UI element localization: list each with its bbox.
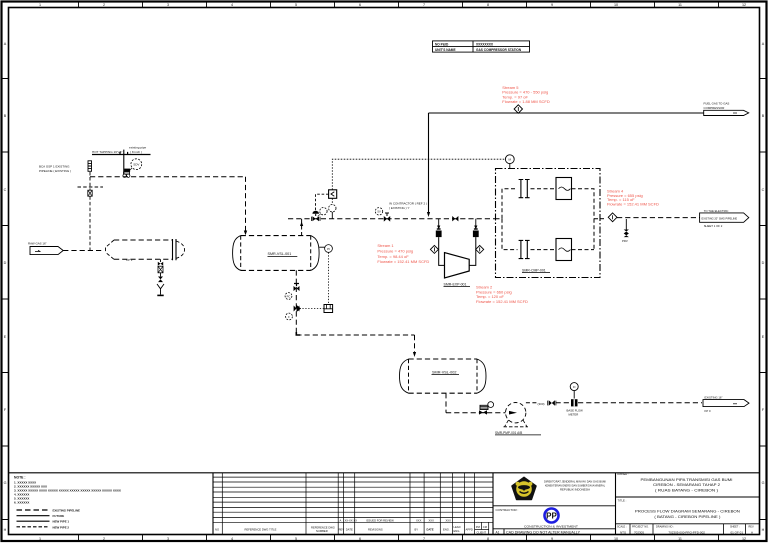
instrument SV bubble station 2 xyxy=(375,208,382,215)
svg-text:TO THE ELECTRIC: TO THE ELECTRIC xyxy=(704,209,729,213)
svg-text:Temp. = 98.44 oF: Temp. = 98.44 oF xyxy=(377,254,409,259)
svg-text:SCALE :: SCALE : xyxy=(617,526,627,529)
instrument PC bubble xyxy=(285,293,292,300)
svg-text:6. XXXXXX: 6. XXXXXX xyxy=(14,501,29,505)
svg-text:existing pipe: existing pipe xyxy=(129,146,146,150)
relief valve PRV stub xyxy=(622,219,629,243)
existing pipeline off-page connector KP 0 xyxy=(703,396,749,413)
svg-text:Flowrate = 152.41 MM SCFD: Flowrate = 152.41 MM SCFD xyxy=(607,202,659,207)
signal wire logic box to bubble xyxy=(331,198,333,219)
instrument bubble near SDV-1 xyxy=(318,208,327,217)
svg-text:PP: PP xyxy=(546,512,557,521)
svg-text:01 OF 01: 01 OF 01 xyxy=(731,531,744,535)
svg-text:PROJECT NO.: PROJECT NO. xyxy=(632,526,649,529)
svg-text:( 8 inch ): ( 8 inch ) xyxy=(130,150,142,154)
svg-text:A: A xyxy=(751,531,753,535)
svg-text:ENG.: ENG. xyxy=(443,528,450,532)
raw gas inlet off-page connector xyxy=(28,242,63,255)
svg-text:( RUAS BATANG - CIREBON ): ( RUAS BATANG - CIREBON ) xyxy=(655,488,718,492)
signal wire PI to controller box xyxy=(328,252,330,304)
vent stack under pig receiver xyxy=(157,259,164,295)
svg-text:IN CONTRACTOR ( REF 2 ): IN CONTRACTOR ( REF 2 ) xyxy=(389,202,427,206)
pump suction control valve xyxy=(479,405,488,414)
svg-text:XXXXXXXX: XXXXXXXX xyxy=(476,42,494,46)
label SMR-EXP-001 xyxy=(444,283,471,287)
svg-text:RAW GAS 16": RAW GAS 16" xyxy=(28,242,47,246)
title block outer dividers xyxy=(9,473,760,535)
svg-text:FUTURE: FUTURE xyxy=(53,514,65,518)
wire fuel gas riser xyxy=(427,113,430,217)
compressor station battery limit box xyxy=(496,169,601,278)
svg-text:SV: SV xyxy=(377,210,381,214)
wire existing branch vertical xyxy=(89,177,91,251)
svg-text:PROCESS FLOW DIAGRAM SEMARANG: PROCESS FLOW DIAGRAM SEMARANG - CIREBON xyxy=(635,509,741,513)
instrument bubble at pump suction xyxy=(488,402,494,408)
svg-text:C: C xyxy=(4,188,7,192)
instrument bubble under logic box xyxy=(329,205,336,212)
label contractor boundary xyxy=(389,202,427,210)
svg-text:REV: REV xyxy=(339,528,345,532)
wire compressor train loop xyxy=(496,189,601,250)
svg-text:SMR-VSL-002: SMR-VSL-002 xyxy=(432,371,456,375)
owner project title xyxy=(617,472,733,492)
wire from expander discharge xyxy=(469,237,476,265)
svg-text:REFERENCE DWG TITLE: REFERENCE DWG TITLE xyxy=(245,528,277,532)
wire fuel gas header xyxy=(429,112,704,114)
notes list xyxy=(14,475,121,504)
valve on expander outlet xyxy=(473,229,479,237)
svg-text:XXX: XXX xyxy=(446,519,452,523)
svg-text:10: 10 xyxy=(614,3,618,7)
svg-text:11: 11 xyxy=(678,3,682,7)
svg-text:OWNER :: OWNER : xyxy=(617,472,629,476)
svg-text:H: H xyxy=(4,528,7,532)
wire pump discharge xyxy=(526,402,537,404)
svg-text:Flowrate = 152.41 MM SCFD: Flowrate = 152.41 MM SCFD xyxy=(476,299,528,304)
svg-text:CLIENT: CLIENT xyxy=(477,531,487,535)
svg-text:REFERENCE DWG: REFERENCE DWG xyxy=(311,526,335,530)
svg-text:REV.: REV. xyxy=(749,526,755,529)
pump SMR-PMP-001 A/B xyxy=(504,403,529,427)
svg-text:EXISTING PIPELINE: EXISTING PIPELINE xyxy=(53,509,81,513)
svg-text:ENG.: ENG. xyxy=(454,529,461,533)
stream 1 data label xyxy=(377,243,429,264)
svg-text:BCA GSP 1 EXISTING: BCA GSP 1 EXISTING xyxy=(39,165,70,169)
svg-text:7: 7 xyxy=(423,537,425,541)
svg-text:SMR-VSL-001: SMR-VSL-001 xyxy=(268,252,292,256)
signal wire valve to controller box xyxy=(300,308,325,310)
hot tap stub wire xyxy=(120,150,128,175)
strainer F2 on existing branch xyxy=(88,190,92,196)
svg-text:APPD: APPD xyxy=(466,528,473,532)
svg-text:6: 6 xyxy=(359,3,361,7)
svg-text:NOTE :: NOTE : xyxy=(14,475,26,479)
svg-text:CONSTRUCTION & INVESTMENT: CONSTRUCTION & INVESTMENT xyxy=(524,524,578,528)
wire vessel top outlet to main header xyxy=(300,219,303,236)
svg-text:8: 8 xyxy=(487,3,489,7)
vessel SMR-VSL-001 xyxy=(233,236,320,271)
compressor SMR-CMP-001 train B cylinder xyxy=(519,240,530,258)
wire expander inlet riser xyxy=(437,219,440,230)
svg-text:G: G xyxy=(4,481,7,485)
svg-text:UNIT'S NAME: UNIT'S NAME xyxy=(435,48,456,52)
svg-text:Flowrate = 1.88 MM SCFD: Flowrate = 1.88 MM SCFD xyxy=(502,99,550,104)
svg-text:H: H xyxy=(762,528,765,532)
ministry name text xyxy=(544,480,606,492)
after-cooler E1 train A xyxy=(556,178,572,200)
after-cooler E2 train B xyxy=(556,239,572,261)
svg-text:EXISTING 16": EXISTING 16" xyxy=(705,396,723,400)
svg-text:1: 1 xyxy=(39,3,41,7)
svg-text:COMPRESSOR: COMPRESSOR xyxy=(704,106,725,110)
electric pipeline off-page connector xyxy=(700,209,749,228)
svg-text:PRV: PRV xyxy=(622,239,628,243)
svg-text:Flowrate = 152.41 MM SCFD: Flowrate = 152.41 MM SCFD xyxy=(377,259,429,264)
svg-text:1: 1 xyxy=(39,537,41,541)
svg-text:SDV: SDV xyxy=(133,163,139,167)
svg-text:EXISTING 20" SMG PIPELINE: EXISTING 20" SMG PIPELINE xyxy=(702,216,738,220)
label existing pipeline xyxy=(39,165,71,174)
pig receiver KP 1 xyxy=(106,239,185,262)
check valve on discharge xyxy=(548,400,556,405)
vessel SMR-VSL-002 xyxy=(400,359,487,393)
strainer F1 on existing branch xyxy=(88,161,92,172)
svg-text:KEMENTERIAN ENERGI DAN SUMBER: KEMENTERIAN ENERGI DAN SUMBER DAYA MINER… xyxy=(545,484,605,488)
svg-text:9: 9 xyxy=(551,3,553,7)
svg-text:METER: METER xyxy=(569,413,579,417)
svg-text:3: 3 xyxy=(167,3,169,7)
svg-text:NO P&ID: NO P&ID xyxy=(435,42,449,46)
svg-text:702305-000-PRO-PFD-002: 702305-000-PRO-PFD-002 xyxy=(668,531,705,535)
svg-text:DRAWING NO :: DRAWING NO : xyxy=(656,526,674,529)
svg-text:CONTRACTOR :: CONTRACTOR : xyxy=(496,508,519,512)
title strip cells xyxy=(616,524,760,535)
svg-text:7: 7 xyxy=(423,3,425,7)
svg-text:SMR-EXP-001: SMR-EXP-001 xyxy=(444,283,467,287)
svg-text:XXX: XXX xyxy=(429,519,435,523)
svg-text:3: 3 xyxy=(167,537,169,541)
signal wire logic box to compressor station bubble xyxy=(332,159,505,190)
svg-text:DATE: DATE xyxy=(346,528,353,532)
node stream 1 diamond xyxy=(430,245,438,253)
svg-text:4: 4 xyxy=(231,537,233,541)
svg-text:10: 10 xyxy=(614,537,618,541)
compressor SMR-CMP-001 train A cylinder xyxy=(519,180,530,198)
svg-text:5: 5 xyxy=(295,3,297,7)
svg-text:Stream 1: Stream 1 xyxy=(377,243,394,248)
svg-text:( BATANG - CIREBON PIPELINE ): ( BATANG - CIREBON PIPELINE ) xyxy=(654,515,720,519)
drawing title xyxy=(616,497,760,519)
svg-text:D: D xyxy=(762,261,765,265)
wire corner node to vessel SMR-VSL-002 xyxy=(296,332,416,357)
svg-text:PC: PC xyxy=(287,294,291,298)
wire main process header xyxy=(288,218,496,220)
svg-text:NEW PIPE 1: NEW PIPE 1 xyxy=(53,520,70,524)
gate valve V2 on main header xyxy=(384,213,390,222)
svg-text:12: 12 xyxy=(742,3,746,7)
stream 4 data label xyxy=(607,188,659,206)
svg-text:FI: FI xyxy=(573,385,576,389)
svg-text:KP 1: KP 1 xyxy=(126,258,133,262)
contractor PP logo xyxy=(524,509,578,529)
instrument M bubble on station box xyxy=(505,155,514,169)
svg-text:REVISIONS: REVISIONS xyxy=(368,528,383,532)
svg-text:A1: A1 xyxy=(496,530,500,534)
wire vessel bottom outlet xyxy=(295,270,297,335)
svg-text:3. XXXXX XXXXX XXXX XXXXX XXXX: 3. XXXXX XXXXX XXXX XXXXX XXXXX XXXXX XX… xyxy=(14,489,121,493)
svg-text:REPUBLIK INDONESIA: REPUBLIK INDONESIA xyxy=(560,488,590,492)
svg-text:HOT TAPPING 16"x8": HOT TAPPING 16"x8" xyxy=(92,150,122,154)
svg-text:A: A xyxy=(340,519,342,523)
svg-text:PI: PI xyxy=(327,247,330,251)
wire to electric off-page connector xyxy=(617,217,700,219)
existing pipeline hot tap header line xyxy=(92,146,151,155)
instrument F bubble xyxy=(286,313,293,320)
blowdown control valve PCV xyxy=(294,284,300,292)
cad note row xyxy=(493,529,616,535)
svg-text:11: 11 xyxy=(678,537,682,541)
svg-text:CAD DRAWING DO NOT ALTER MANUA: CAD DRAWING DO NOT ALTER MANUALLY xyxy=(506,530,581,534)
svg-text:BY: BY xyxy=(415,528,419,532)
valve V3 on main header xyxy=(452,216,458,221)
signal wire logic box to SDV-1 actuator xyxy=(316,194,329,210)
svg-text:D: D xyxy=(4,261,7,265)
svg-text:XX-XX-XX: XX-XX-XX xyxy=(345,519,358,523)
svg-text:(300): (300) xyxy=(538,402,545,406)
ministry emblem xyxy=(512,477,536,499)
svg-text:5: 5 xyxy=(295,537,297,541)
hot tap tee node xyxy=(123,174,130,177)
wire station outlet xyxy=(600,218,607,220)
wire to expander suction xyxy=(439,237,445,265)
svg-text:NO: NO xyxy=(215,528,219,532)
svg-text:( EXISTING ) Y: ( EXISTING ) Y xyxy=(389,206,409,210)
svg-text:12: 12 xyxy=(742,537,746,541)
stream 5 data label xyxy=(502,85,550,104)
wire expander outlet riser xyxy=(474,219,477,230)
svg-text:G: G xyxy=(762,481,765,485)
wire raw gas to pig receiver xyxy=(63,250,104,252)
svg-text:LEAD: LEAD xyxy=(454,525,461,529)
label SMR-CMP-001 xyxy=(522,269,550,273)
fuel gas off-page connector xyxy=(704,101,749,115)
instrument PI bubble of SMR-VSL-001 xyxy=(319,245,332,253)
node stream 5 diamond xyxy=(514,105,522,113)
valve on expander inlet xyxy=(436,229,442,237)
revision table grid xyxy=(213,473,493,535)
svg-text:CM: CM xyxy=(483,525,488,529)
svg-text:6: 6 xyxy=(359,537,361,541)
svg-text:SMR-CMP-001: SMR-CMP-001 xyxy=(522,269,546,273)
base flow meter xyxy=(567,383,584,417)
svg-text:KP 0: KP 0 xyxy=(705,409,711,413)
svg-text:PEMBANGUNAN PIPA TRANSMISI GAS: PEMBANGUNAN PIPA TRANSMISI GAS BUMI xyxy=(641,478,733,482)
svg-text:XXX: XXX xyxy=(416,519,422,523)
svg-text:TITLE :: TITLE : xyxy=(618,498,627,502)
expander SMR-EXP-001 body xyxy=(445,253,470,278)
svg-text:FUEL GAS TO GAS: FUEL GAS TO GAS xyxy=(704,101,730,105)
revision table texts xyxy=(215,519,488,535)
P&ID reference table xyxy=(433,41,530,52)
svg-text:NEW PIPE 2: NEW PIPE 2 xyxy=(53,525,70,529)
blowdown flow valve xyxy=(294,305,301,312)
svg-text:9: 9 xyxy=(551,537,553,541)
svg-text:8: 8 xyxy=(487,537,489,541)
svg-text:4: 4 xyxy=(231,3,233,7)
logic box U1 xyxy=(329,190,337,199)
svg-text:DATE: DATE xyxy=(427,528,434,532)
owner logo block divider xyxy=(493,505,616,507)
svg-text:DIREKTORAT JENDERAL MINYAK DAN: DIREKTORAT JENDERAL MINYAK DAN GAS BUMI xyxy=(544,480,606,484)
svg-text:SMR-PMP-001 A/B: SMR-PMP-001 A/B xyxy=(495,431,522,435)
svg-text:CIREBON - SEMARANG TAHAP 2: CIREBON - SEMARANG TAHAP 2 xyxy=(653,483,720,487)
wire hot tap to vessel SMR-VSL-001 xyxy=(90,177,247,236)
shutdown valve SDV-1 with dome actuator xyxy=(311,211,320,221)
svg-text:SHEET :: SHEET : xyxy=(730,526,740,529)
svg-text:2: 2 xyxy=(103,537,105,541)
svg-text:Pressure = 470 psig: Pressure = 470 psig xyxy=(377,249,413,254)
node stream 2 diamond xyxy=(476,245,484,253)
instrument SDV bubble at hot tap xyxy=(130,159,142,170)
controller box xyxy=(324,305,333,313)
tie-in boundary wire xyxy=(78,186,104,188)
wire vessel SMR-VSL-002 outlet to pump xyxy=(446,393,506,413)
hot tap isolation valve xyxy=(124,169,131,174)
svg-text:NTS: NTS xyxy=(620,531,626,535)
svg-text:702305: 702305 xyxy=(634,531,644,535)
stream 2 data label xyxy=(476,285,528,305)
label SMR-PMP-001 A/B xyxy=(495,431,541,435)
legend line samples xyxy=(17,509,81,530)
wire existing branch upper xyxy=(89,172,91,177)
svg-text:PIPELINE ( EXISTING ): PIPELINE ( EXISTING ) xyxy=(39,169,71,173)
node stream 4 diamond xyxy=(608,213,617,222)
svg-text:2: 2 xyxy=(103,3,105,7)
svg-text:SHEET 1 OF 2: SHEET 1 OF 2 xyxy=(704,224,723,228)
wire discharge header xyxy=(556,402,703,404)
svg-text:NUMBER: NUMBER xyxy=(316,529,328,533)
svg-text:C: C xyxy=(762,188,765,192)
svg-text:ISSUED FOR REVIEW: ISSUED FOR REVIEW xyxy=(366,519,394,523)
svg-text:GAS COMPRESSOR STATION: GAS COMPRESSOR STATION xyxy=(476,48,522,52)
